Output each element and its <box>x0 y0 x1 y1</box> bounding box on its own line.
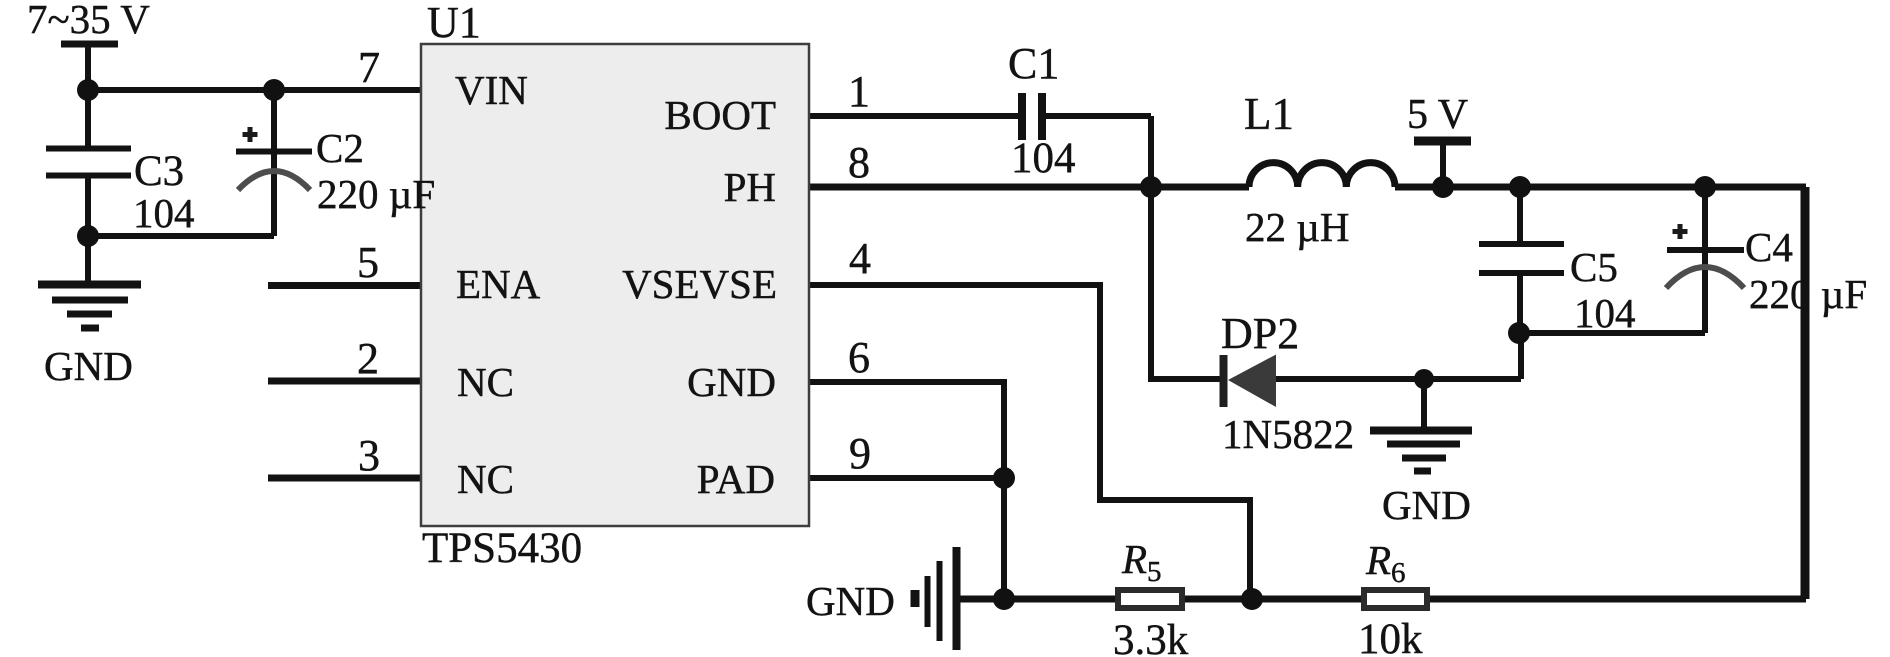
svg-text:3.3k: 3.3k <box>1113 617 1189 657</box>
svg-text:220 µF: 220 µF <box>1749 271 1867 317</box>
svg-text:R6: R6 <box>1365 537 1406 589</box>
svg-text:TPS5430: TPS5430 <box>422 525 582 572</box>
svg-text:PAD: PAD <box>697 456 775 502</box>
svg-text:DP2: DP2 <box>1221 309 1299 358</box>
svg-text:8: 8 <box>848 138 870 187</box>
svg-text:C4: C4 <box>1745 224 1793 270</box>
svg-text:C2: C2 <box>316 125 364 171</box>
svg-text:PH: PH <box>724 164 776 210</box>
svg-text:1N5822: 1N5822 <box>1222 411 1354 457</box>
svg-text:7: 7 <box>358 43 380 92</box>
svg-text:2: 2 <box>357 334 379 383</box>
svg-text:104: 104 <box>1574 290 1636 336</box>
svg-text:C1: C1 <box>1008 39 1059 88</box>
svg-text:9: 9 <box>849 429 871 478</box>
svg-text:5 V: 5 V <box>1407 92 1468 138</box>
svg-text:220 µF: 220 µF <box>317 171 435 217</box>
svg-text:5: 5 <box>357 238 379 287</box>
svg-text:L1: L1 <box>1244 89 1294 139</box>
svg-text:U1: U1 <box>427 0 481 47</box>
svg-text:R5: R5 <box>1121 536 1162 588</box>
svg-text:GND: GND <box>806 578 895 624</box>
svg-text:VSEVSE: VSEVSE <box>622 261 777 307</box>
svg-text:104: 104 <box>133 190 195 236</box>
svg-text:10k: 10k <box>1358 616 1423 657</box>
svg-text:22 µH: 22 µH <box>1245 204 1349 250</box>
svg-text:6: 6 <box>848 333 870 382</box>
svg-text:ENA: ENA <box>456 261 541 307</box>
svg-text:NC: NC <box>457 359 514 405</box>
svg-text:GND: GND <box>1382 482 1471 528</box>
svg-text:104: 104 <box>1011 135 1076 182</box>
svg-text:C5: C5 <box>1570 244 1618 290</box>
svg-text:C3: C3 <box>134 148 184 195</box>
svg-text:BOOT: BOOT <box>664 92 776 138</box>
svg-text:VIN: VIN <box>455 67 528 113</box>
svg-text:1: 1 <box>848 67 870 116</box>
svg-text:NC: NC <box>457 456 514 502</box>
svg-text:3: 3 <box>358 431 380 480</box>
svg-text:4: 4 <box>849 234 871 283</box>
svg-text:GND: GND <box>687 359 776 405</box>
svg-text:GND: GND <box>44 343 133 389</box>
svg-text:7~35 V: 7~35 V <box>27 0 150 42</box>
